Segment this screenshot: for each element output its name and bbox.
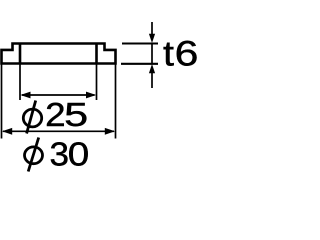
extension line right outer (phi30) bbox=[115, 65, 117, 139]
svg-text:5: 5 bbox=[64, 96, 88, 133]
part outline (stepped washer cross-section) bbox=[2, 44, 116, 64]
t6 bottom extension line bbox=[121, 63, 158, 65]
t6 dimension line crossing segment bbox=[151, 44, 153, 64]
phi30 dimension line bbox=[3, 130, 114, 132]
svg-text:t: t bbox=[163, 34, 174, 73]
svg-text:3: 3 bbox=[50, 135, 70, 172]
label t6 bbox=[163, 34, 198, 73]
svg-text:6: 6 bbox=[175, 34, 199, 73]
t6 lower arrowhead (points up) bbox=[149, 64, 155, 73]
t6 top extension line bbox=[122, 43, 158, 45]
phi25 right arrowhead bbox=[86, 92, 96, 99]
extension line left inner (phi25) bbox=[19, 65, 21, 101]
inner boss line left bbox=[19, 44, 22, 64]
extension line right inner (phi25) bbox=[96, 65, 98, 101]
label phi30: phi symbol drawn as ellipse+stem bbox=[25, 135, 90, 172]
label phi25: phi symbol drawn as ellipse+stem bbox=[23, 96, 88, 133]
svg-text:2: 2 bbox=[45, 96, 65, 133]
t6 dimension lower tail bbox=[151, 71, 153, 88]
t6 dimension upper tail bbox=[151, 22, 153, 36]
phi30 right arrowhead bbox=[105, 128, 115, 135]
extension line left outer (phi30) bbox=[1, 65, 3, 139]
svg-text:0: 0 bbox=[68, 135, 90, 172]
t6 upper arrowhead (points down) bbox=[149, 34, 155, 43]
phi25 dimension line bbox=[22, 94, 95, 96]
inner boss line right bbox=[95, 44, 98, 64]
phi25 left arrowhead bbox=[20, 92, 30, 99]
phi30 left arrowhead bbox=[2, 128, 12, 135]
